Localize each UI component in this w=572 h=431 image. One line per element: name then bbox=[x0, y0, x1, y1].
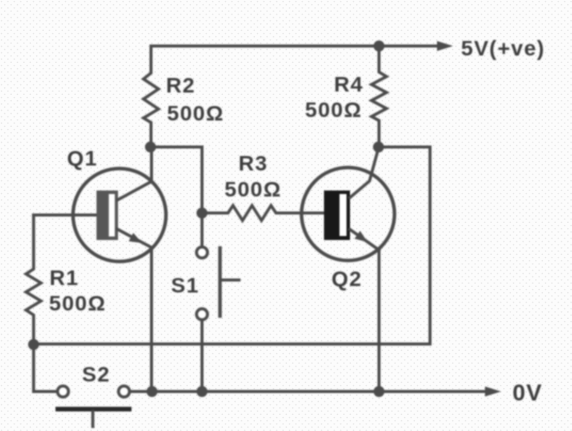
wire R2 node to R3 node bbox=[151, 147, 203, 213]
wire top 5V rail bbox=[151, 45, 438, 48]
svg-text:R3: R3 bbox=[239, 152, 268, 176]
switch S1 bbox=[197, 213, 240, 392]
resistor R3 bbox=[202, 206, 302, 221]
node R3 left junction bbox=[197, 208, 208, 219]
svg-text:500Ω: 500Ω bbox=[225, 178, 282, 202]
node top rail junction bbox=[374, 41, 385, 52]
resistor R1 bbox=[26, 215, 41, 345]
wire 5V arrowhead bbox=[437, 41, 453, 51]
node rail Q2 emitter junction bbox=[374, 386, 385, 397]
wire cross-coupling Q2 collector to R1 bbox=[34, 147, 430, 344]
svg-text:0V: 0V bbox=[513, 380, 543, 406]
wire Q1 base lead bbox=[34, 214, 97, 217]
switch S2 bbox=[56, 386, 132, 427]
node R2 bottom junction bbox=[145, 142, 156, 153]
svg-text:Q2: Q2 bbox=[332, 267, 363, 291]
svg-text:5V(+ve): 5V(+ve) bbox=[461, 37, 545, 61]
svg-text:500Ω: 500Ω bbox=[49, 292, 106, 316]
wire S1 bottom lead bbox=[201, 320, 204, 392]
wire bottom 0V rail bbox=[131, 390, 487, 393]
svg-text:S1: S1 bbox=[171, 274, 199, 298]
svg-text:R1: R1 bbox=[50, 266, 79, 290]
wire R1 bottom to S2 bbox=[34, 345, 56, 392]
svg-text:Q1: Q1 bbox=[67, 147, 98, 171]
svg-text:S2: S2 bbox=[82, 363, 110, 387]
node R1 bottom junction bbox=[28, 339, 39, 350]
svg-text:R4: R4 bbox=[334, 73, 363, 97]
wire Q2 base lead bbox=[302, 212, 325, 215]
node rail S1 junction bbox=[197, 386, 208, 397]
resistor R2 bbox=[144, 46, 159, 147]
transistor Q2 bbox=[302, 148, 395, 392]
wire Q1 collector bbox=[118, 147, 152, 200]
node R4 bottom junction bbox=[373, 142, 384, 153]
resistor R4 bbox=[372, 46, 387, 147]
wire Q2 emitter bbox=[350, 230, 379, 251]
wire Q1 emitter bbox=[117, 229, 152, 248]
svg-text:R2: R2 bbox=[166, 74, 195, 98]
wire S1 top lead bbox=[201, 213, 204, 246]
svg-text:500Ω: 500Ω bbox=[167, 102, 224, 126]
node rail Q1 emitter junction bbox=[147, 386, 158, 397]
wire 0V arrowhead bbox=[485, 387, 501, 397]
transistor Q1 bbox=[34, 147, 166, 392]
svg-text:500Ω: 500Ω bbox=[305, 98, 362, 122]
wire Q2 collector bbox=[350, 148, 379, 198]
